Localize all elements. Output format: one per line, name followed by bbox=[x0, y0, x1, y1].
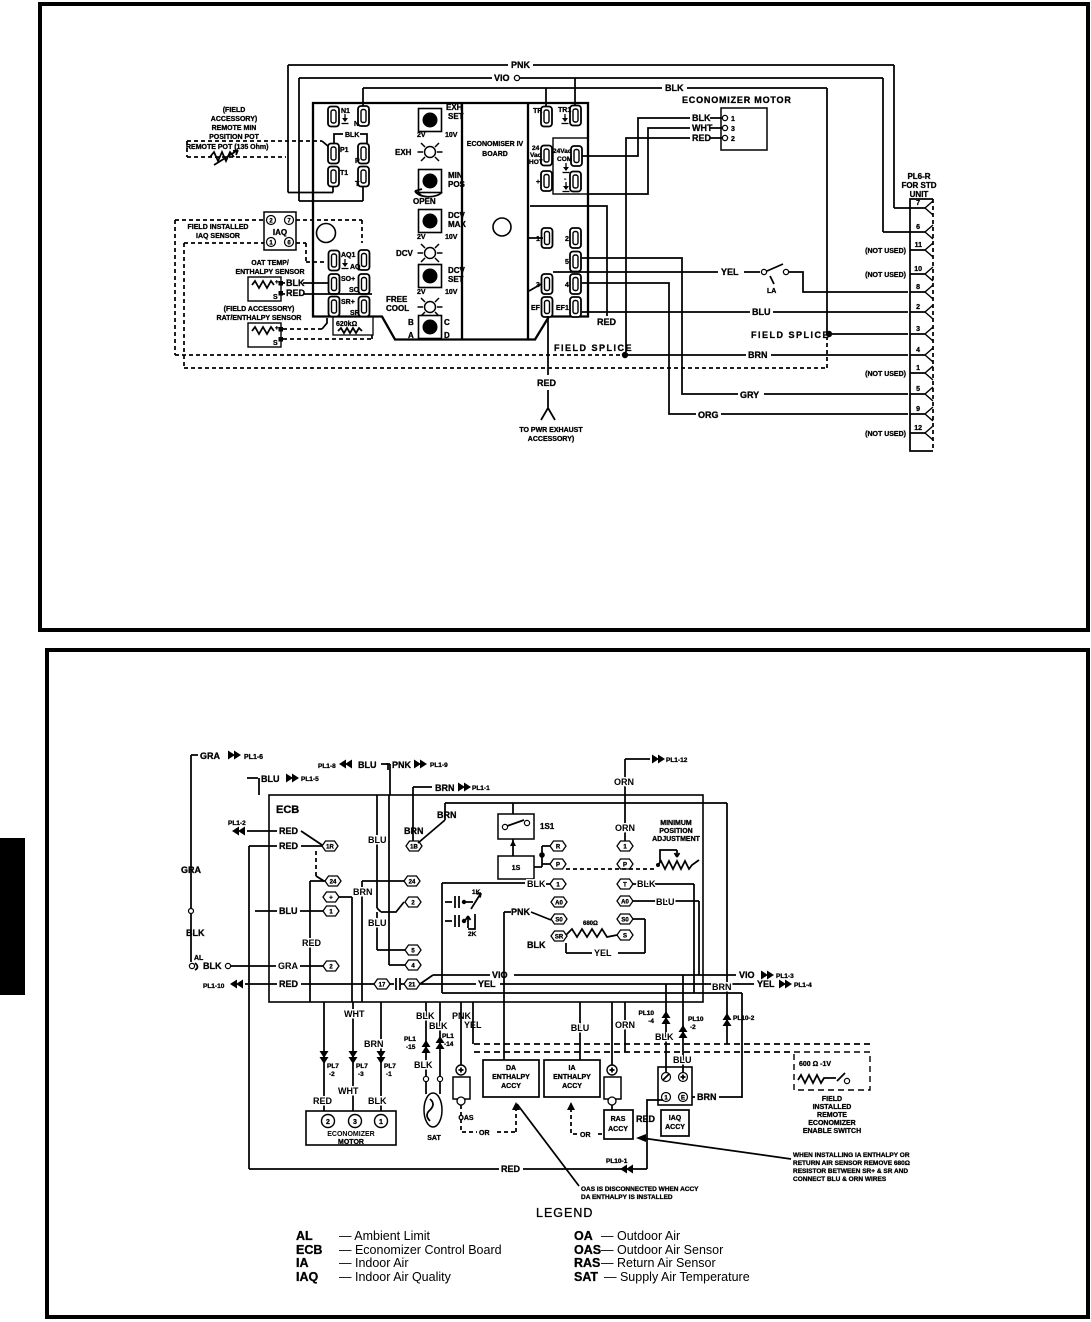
svg-text:BLU: BLU bbox=[571, 1023, 590, 1033]
svg-text:PL10-2: PL10-2 bbox=[733, 1015, 755, 1022]
svg-text:DCV: DCV bbox=[448, 266, 466, 275]
svg-text:DA: DA bbox=[506, 1065, 516, 1072]
svg-text:WHT: WHT bbox=[692, 123, 713, 133]
svg-text:POSITION: POSITION bbox=[659, 828, 692, 835]
svg-text:OAS: OAS bbox=[574, 1243, 601, 1257]
svg-text:SET: SET bbox=[448, 275, 464, 284]
svg-text:LA: LA bbox=[767, 288, 776, 295]
svg-text:OR: OR bbox=[580, 1132, 591, 1139]
svg-text:10V: 10V bbox=[445, 132, 458, 139]
svg-text:ECONOMIZER: ECONOMIZER bbox=[808, 1120, 855, 1127]
svg-text:(NOT USED): (NOT USED) bbox=[865, 431, 906, 438]
svg-text:9: 9 bbox=[916, 406, 920, 413]
svg-text:BRN: BRN bbox=[435, 783, 455, 793]
svg-text:IAQ: IAQ bbox=[273, 228, 287, 237]
svg-text:N: N bbox=[354, 121, 359, 128]
svg-text:17: 17 bbox=[379, 983, 386, 989]
svg-text:-15: -15 bbox=[406, 1044, 416, 1051]
svg-text:REMOTE MIN: REMOTE MIN bbox=[212, 125, 257, 132]
svg-text:BLK: BLK bbox=[286, 278, 305, 288]
svg-text:COOL: COOL bbox=[386, 304, 409, 313]
svg-text:FIELD INSTALLED: FIELD INSTALLED bbox=[188, 224, 249, 231]
svg-text:A0: A0 bbox=[555, 901, 563, 907]
svg-text:RED: RED bbox=[537, 378, 557, 388]
svg-text:3: 3 bbox=[353, 1119, 357, 1126]
svg-text:RED: RED bbox=[313, 1096, 333, 1106]
svg-text:GRA: GRA bbox=[181, 865, 202, 875]
svg-text:24: 24 bbox=[330, 880, 337, 886]
svg-text:PL10-1: PL10-1 bbox=[606, 1158, 628, 1165]
svg-text:PL1-6: PL1-6 bbox=[244, 754, 263, 761]
svg-text:+: + bbox=[536, 179, 540, 186]
svg-text:UNIT: UNIT bbox=[910, 190, 929, 199]
svg-text:EXH: EXH bbox=[446, 103, 463, 112]
svg-text:ORN: ORN bbox=[615, 823, 635, 833]
svg-text:BLU: BLU bbox=[368, 918, 387, 928]
svg-text:RED: RED bbox=[692, 133, 712, 143]
svg-text:+: + bbox=[275, 326, 279, 332]
svg-text:8: 8 bbox=[916, 284, 920, 291]
svg-text:BLU: BLU bbox=[368, 835, 387, 845]
svg-text:POS: POS bbox=[448, 180, 466, 189]
svg-text:DCV: DCV bbox=[396, 249, 414, 258]
svg-text:COM: COM bbox=[557, 156, 572, 163]
svg-text:EF1: EF1 bbox=[556, 305, 569, 312]
svg-text:2V: 2V bbox=[417, 289, 426, 296]
svg-text:PNK: PNK bbox=[511, 907, 531, 917]
svg-text:PL7: PL7 bbox=[327, 1063, 339, 1070]
svg-text:3: 3 bbox=[731, 126, 735, 133]
svg-text:1S: 1S bbox=[512, 865, 521, 872]
svg-text:POSITION POT: POSITION POT bbox=[209, 134, 260, 141]
svg-text:PL1: PL1 bbox=[404, 1036, 416, 1043]
svg-text:R: R bbox=[556, 845, 561, 851]
svg-text:SR+: SR+ bbox=[341, 299, 355, 306]
svg-text:ACCY: ACCY bbox=[562, 1083, 582, 1090]
svg-text:BLK: BLK bbox=[186, 928, 205, 938]
svg-text:ACCESSORY): ACCESSORY) bbox=[528, 436, 574, 443]
svg-text:BRN: BRN bbox=[404, 826, 424, 836]
svg-text:24: 24 bbox=[532, 145, 540, 152]
svg-text:4: 4 bbox=[565, 282, 569, 289]
svg-text:FIELD SPLICE: FIELD SPLICE bbox=[554, 343, 633, 353]
svg-text:BLK: BLK bbox=[414, 1060, 433, 1070]
svg-text:P: P bbox=[355, 158, 360, 165]
svg-text:SAT: SAT bbox=[427, 1135, 441, 1142]
svg-text:PL1-5: PL1-5 bbox=[301, 776, 319, 783]
svg-text:WHEN INSTALLING IA ENTHALPY OR: WHEN INSTALLING IA ENTHALPY OR bbox=[793, 1152, 910, 1159]
svg-text:1: 1 bbox=[731, 116, 735, 123]
svg-text:RED: RED bbox=[501, 1164, 521, 1174]
svg-text:PL7: PL7 bbox=[356, 1063, 368, 1070]
svg-text:AL: AL bbox=[296, 1229, 313, 1243]
svg-text:ORN: ORN bbox=[615, 1020, 635, 1030]
svg-text:PNK: PNK bbox=[511, 60, 531, 70]
svg-text:-: - bbox=[564, 176, 567, 183]
svg-text:IAQ: IAQ bbox=[296, 1270, 319, 1284]
svg-text:S: S bbox=[273, 294, 278, 301]
svg-text:21: 21 bbox=[409, 983, 416, 989]
svg-text:ORN: ORN bbox=[614, 777, 634, 787]
svg-text:11: 11 bbox=[915, 242, 923, 249]
svg-text:600 Ω -1V: 600 Ω -1V bbox=[799, 1061, 831, 1068]
svg-text:ACCY: ACCY bbox=[501, 1083, 521, 1090]
svg-text:IAQ SENSOR: IAQ SENSOR bbox=[196, 233, 240, 240]
svg-text:RAT/ENTHALPY SENSOR: RAT/ENTHALPY SENSOR bbox=[217, 315, 302, 322]
svg-text:— Return Air Sensor: — Return Air Sensor bbox=[601, 1256, 716, 1270]
svg-text:TR1: TR1 bbox=[558, 107, 571, 114]
svg-text:REMOTE: REMOTE bbox=[817, 1112, 847, 1119]
svg-text:-4: -4 bbox=[648, 1018, 654, 1025]
svg-text:P: P bbox=[623, 863, 627, 869]
svg-text:BLK: BLK bbox=[203, 961, 222, 971]
svg-text:OPEN: OPEN bbox=[413, 197, 436, 206]
svg-text:BRN: BRN bbox=[748, 350, 768, 360]
svg-text:— Ambient Limit: — Ambient Limit bbox=[339, 1229, 431, 1243]
svg-text:+: + bbox=[329, 896, 333, 902]
svg-text:LEGEND: LEGEND bbox=[536, 1206, 593, 1220]
svg-text:IAQ: IAQ bbox=[669, 1115, 682, 1122]
svg-text:BLK: BLK bbox=[429, 1021, 448, 1031]
svg-text:2: 2 bbox=[326, 1119, 330, 1126]
svg-text:4: 4 bbox=[916, 347, 920, 354]
svg-text:RAS: RAS bbox=[611, 1116, 626, 1123]
svg-text:RED: RED bbox=[279, 841, 299, 851]
svg-text:— Supply Air Temperature: — Supply Air Temperature bbox=[604, 1270, 750, 1284]
svg-text:2K: 2K bbox=[468, 931, 477, 938]
svg-text:SR: SR bbox=[350, 310, 360, 317]
svg-text:1R: 1R bbox=[326, 845, 334, 851]
svg-text:PL1: PL1 bbox=[442, 1033, 454, 1040]
svg-text:PL1-1: PL1-1 bbox=[472, 785, 490, 792]
svg-text:WHT: WHT bbox=[338, 1086, 359, 1096]
svg-text:— Outdoor Air: — Outdoor Air bbox=[601, 1229, 680, 1243]
svg-text:BLU: BLU bbox=[656, 897, 675, 907]
svg-text:BLK: BLK bbox=[665, 83, 684, 93]
svg-text:D: D bbox=[444, 331, 450, 340]
svg-text:ECONOMIZER: ECONOMIZER bbox=[327, 1131, 374, 1138]
svg-text:VIO: VIO bbox=[494, 73, 510, 83]
svg-text:BLU: BLU bbox=[279, 906, 298, 916]
svg-text:— Economizer Control Board: — Economizer Control Board bbox=[339, 1243, 502, 1257]
svg-text:PL1-2: PL1-2 bbox=[228, 820, 246, 827]
svg-text:S0: S0 bbox=[555, 918, 563, 924]
svg-text:YEL: YEL bbox=[757, 979, 775, 989]
svg-text:AQ: AQ bbox=[350, 264, 361, 271]
svg-text:ENTHALPY: ENTHALPY bbox=[553, 1074, 591, 1081]
svg-text:1: 1 bbox=[916, 365, 920, 372]
svg-text:2: 2 bbox=[731, 136, 735, 143]
svg-text:RED: RED bbox=[636, 1114, 656, 1124]
svg-text:OR: OR bbox=[479, 1130, 490, 1137]
svg-text:(NOT USED): (NOT USED) bbox=[865, 371, 906, 378]
svg-text:BLU: BLU bbox=[261, 774, 280, 784]
svg-text:HOT: HOT bbox=[529, 159, 543, 166]
svg-text:TR: TR bbox=[533, 108, 542, 115]
svg-text:RED: RED bbox=[279, 826, 299, 836]
svg-text:A: A bbox=[408, 331, 414, 340]
svg-text:— Indoor Air: — Indoor Air bbox=[339, 1256, 408, 1270]
svg-text:1B: 1B bbox=[410, 845, 418, 851]
svg-text:SO+: SO+ bbox=[341, 276, 355, 283]
svg-text:ECB: ECB bbox=[276, 804, 299, 816]
svg-text:E: E bbox=[681, 1096, 685, 1102]
svg-text:BLK: BLK bbox=[692, 113, 711, 123]
svg-text:OAT TEMP/: OAT TEMP/ bbox=[251, 260, 289, 267]
svg-text:PL10: PL10 bbox=[688, 1016, 704, 1023]
svg-text:AQ1: AQ1 bbox=[341, 252, 356, 259]
svg-text:1S1: 1S1 bbox=[540, 822, 555, 831]
svg-text:PL1-12: PL1-12 bbox=[666, 757, 688, 764]
svg-text:-14: -14 bbox=[444, 1041, 454, 1048]
svg-text:PL10: PL10 bbox=[638, 1010, 654, 1017]
svg-text:2V: 2V bbox=[417, 132, 426, 139]
svg-text:-3: -3 bbox=[358, 1071, 364, 1078]
svg-text:A0: A0 bbox=[621, 900, 629, 906]
svg-text:2: 2 bbox=[565, 236, 569, 243]
svg-text:ENABLE SWITCH: ENABLE SWITCH bbox=[803, 1128, 861, 1135]
svg-text:OAS IS DISCONNECTED WHEN ACCY: OAS IS DISCONNECTED WHEN ACCY bbox=[581, 1186, 699, 1193]
svg-text:GRY: GRY bbox=[740, 390, 759, 400]
svg-text:ACCY: ACCY bbox=[665, 1124, 685, 1131]
svg-text:ECONOMISER IV: ECONOMISER IV bbox=[467, 141, 524, 148]
svg-text:YEL: YEL bbox=[478, 979, 496, 989]
svg-text:7: 7 bbox=[916, 200, 920, 207]
svg-text:10: 10 bbox=[914, 266, 922, 273]
svg-text:-2: -2 bbox=[690, 1024, 696, 1031]
svg-text:RAS: RAS bbox=[574, 1256, 600, 1270]
svg-text:PL6-R: PL6-R bbox=[907, 172, 930, 181]
svg-text:PL1-9: PL1-9 bbox=[430, 762, 448, 769]
svg-text:S0: S0 bbox=[621, 918, 629, 924]
svg-text:PL1-10: PL1-10 bbox=[203, 983, 225, 990]
svg-text:BLK: BLK bbox=[416, 1011, 435, 1021]
svg-text:(FIELD: (FIELD bbox=[223, 107, 246, 114]
svg-text:CONNECT BLU & ORN WIRES: CONNECT BLU & ORN WIRES bbox=[793, 1176, 887, 1183]
svg-text:1: 1 bbox=[379, 1119, 383, 1126]
svg-text:RED: RED bbox=[279, 979, 299, 989]
svg-text:10V: 10V bbox=[445, 234, 458, 241]
svg-text:24Vac: 24Vac bbox=[553, 148, 572, 155]
svg-text:ADJUSTMENT: ADJUSTMENT bbox=[652, 836, 701, 843]
svg-text:VIO: VIO bbox=[739, 970, 755, 980]
svg-text:GRA: GRA bbox=[278, 961, 299, 971]
svg-text:RED: RED bbox=[597, 317, 617, 327]
svg-text:+: + bbox=[275, 280, 279, 286]
svg-text:(NOT USED): (NOT USED) bbox=[865, 272, 906, 279]
svg-text:SET: SET bbox=[448, 112, 464, 121]
svg-text:BRN: BRN bbox=[353, 887, 373, 897]
svg-text:IA: IA bbox=[569, 1065, 576, 1072]
svg-text:— Outdoor Air Sensor: — Outdoor Air Sensor bbox=[601, 1243, 723, 1257]
svg-text:T1: T1 bbox=[340, 170, 348, 177]
svg-text:PL1-3: PL1-3 bbox=[776, 973, 794, 980]
svg-text:RED: RED bbox=[302, 938, 322, 948]
svg-text:FIELD SPLICE: FIELD SPLICE bbox=[751, 330, 830, 340]
svg-text:— Indoor Air Quality: — Indoor Air Quality bbox=[339, 1270, 452, 1284]
svg-text:1K: 1K bbox=[472, 889, 481, 896]
svg-text:BLU: BLU bbox=[358, 760, 377, 770]
svg-text:ACCY: ACCY bbox=[608, 1126, 628, 1133]
svg-text:2V: 2V bbox=[417, 234, 426, 241]
svg-text:T: T bbox=[623, 883, 627, 889]
svg-text:SAT: SAT bbox=[574, 1270, 598, 1284]
svg-text:RED: RED bbox=[286, 288, 306, 298]
svg-text:S: S bbox=[273, 340, 278, 347]
svg-text:2: 2 bbox=[916, 304, 920, 311]
svg-text:WHT: WHT bbox=[344, 1009, 365, 1019]
svg-text:PNK: PNK bbox=[392, 760, 412, 770]
svg-text:C: C bbox=[444, 318, 450, 327]
svg-text:N1: N1 bbox=[341, 108, 350, 115]
svg-text:MAX: MAX bbox=[448, 220, 466, 229]
svg-text:EXH: EXH bbox=[395, 148, 412, 157]
svg-text:BLK: BLK bbox=[527, 940, 546, 950]
svg-text:3: 3 bbox=[536, 282, 540, 289]
svg-text:FOR STD: FOR STD bbox=[901, 181, 936, 190]
svg-text:BLK: BLK bbox=[527, 879, 546, 889]
svg-text:DCV: DCV bbox=[448, 211, 466, 220]
svg-text:MINIMUM: MINIMUM bbox=[660, 820, 692, 827]
svg-text:TO PWR EXHAUST: TO PWR EXHAUST bbox=[519, 427, 583, 434]
svg-text:BLK: BLK bbox=[345, 132, 359, 139]
svg-text:BRN: BRN bbox=[437, 810, 457, 820]
svg-text:YEL: YEL bbox=[594, 948, 612, 958]
svg-text:-2: -2 bbox=[329, 1071, 335, 1078]
svg-text:24: 24 bbox=[409, 880, 416, 886]
svg-text:RESISTOR BETWEEN SR+ & SR AND: RESISTOR BETWEEN SR+ & SR AND bbox=[793, 1168, 908, 1175]
svg-text:PL7: PL7 bbox=[384, 1063, 396, 1070]
svg-text:EF: EF bbox=[531, 305, 541, 312]
svg-text:PL1-4: PL1-4 bbox=[794, 982, 812, 989]
svg-text:MIN: MIN bbox=[448, 171, 463, 180]
svg-text:BLK: BLK bbox=[637, 879, 656, 889]
svg-text:1: 1 bbox=[536, 236, 540, 243]
svg-text:IA: IA bbox=[296, 1256, 309, 1270]
svg-text:Vac: Vac bbox=[530, 152, 542, 159]
svg-text:YEL: YEL bbox=[721, 267, 739, 277]
svg-text:5: 5 bbox=[916, 386, 920, 393]
svg-text:B: B bbox=[408, 318, 414, 327]
svg-text:12: 12 bbox=[914, 425, 922, 432]
svg-text:BLU: BLU bbox=[752, 307, 771, 317]
svg-text:ACCESSORY): ACCESSORY) bbox=[211, 116, 257, 123]
svg-text:RETURN AIR SENSOR REMOVE 680Ω: RETURN AIR SENSOR REMOVE 680Ω bbox=[793, 1160, 910, 1167]
svg-text:P: P bbox=[556, 863, 560, 869]
svg-text:FIELD: FIELD bbox=[822, 1096, 842, 1103]
svg-text:ECB: ECB bbox=[296, 1243, 322, 1257]
svg-text:6: 6 bbox=[916, 224, 920, 231]
svg-text:10V: 10V bbox=[445, 289, 458, 296]
svg-text:T: T bbox=[355, 181, 360, 188]
svg-text:(NOT USED): (NOT USED) bbox=[865, 248, 906, 255]
svg-text:GRA: GRA bbox=[200, 751, 221, 761]
svg-text:(FIELD ACCESSORY): (FIELD ACCESSORY) bbox=[224, 306, 295, 313]
svg-text:OA: OA bbox=[574, 1229, 593, 1243]
svg-text:P1: P1 bbox=[340, 147, 349, 154]
svg-text:S: S bbox=[623, 934, 627, 940]
svg-text:SR: SR bbox=[555, 935, 564, 941]
svg-text:BRN: BRN bbox=[697, 1092, 717, 1102]
svg-text:PL1-8: PL1-8 bbox=[318, 763, 336, 770]
svg-text:ORG: ORG bbox=[698, 410, 719, 420]
svg-text:MOTOR: MOTOR bbox=[338, 1139, 364, 1146]
svg-text:INSTALLED: INSTALLED bbox=[813, 1104, 852, 1111]
svg-text:BLU: BLU bbox=[673, 1055, 692, 1065]
svg-text:3: 3 bbox=[916, 326, 920, 333]
svg-text:REMOTE POT (135 Ohm): REMOTE POT (135 Ohm) bbox=[186, 144, 268, 151]
svg-text:ENTHALPY: ENTHALPY bbox=[492, 1074, 530, 1081]
svg-text:BOARD: BOARD bbox=[482, 151, 508, 158]
svg-text:BLK: BLK bbox=[368, 1096, 387, 1106]
svg-text:BRN: BRN bbox=[712, 982, 732, 992]
svg-text:ECONOMIZER MOTOR: ECONOMIZER MOTOR bbox=[682, 95, 792, 105]
svg-text:-1: -1 bbox=[386, 1071, 392, 1078]
svg-text:5: 5 bbox=[565, 259, 569, 266]
svg-text:680Ω: 680Ω bbox=[583, 921, 598, 927]
svg-text:SO: SO bbox=[349, 287, 360, 294]
svg-text:BRN: BRN bbox=[364, 1039, 384, 1049]
svg-text:FREE: FREE bbox=[386, 295, 408, 304]
svg-text:DA ENTHALPY IS INSTALLED: DA ENTHALPY IS INSTALLED bbox=[581, 1194, 673, 1201]
svg-text:BLK: BLK bbox=[655, 1032, 674, 1042]
svg-text:ENTHALPY SENSOR: ENTHALPY SENSOR bbox=[235, 269, 304, 276]
